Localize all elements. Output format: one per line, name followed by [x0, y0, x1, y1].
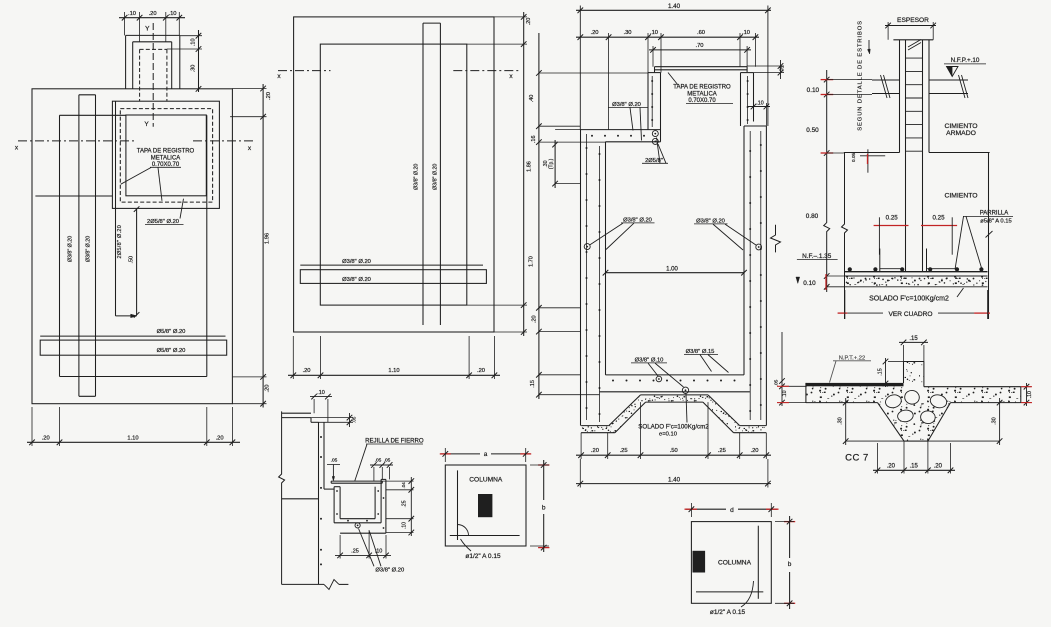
svg-text:.10: .10 [402, 522, 408, 529]
svg-text:.10: .10 [317, 390, 325, 396]
svg-text:Ø3/8" Ø.20: Ø3/8" Ø.20 [342, 259, 371, 265]
svg-text:.60: .60 [697, 30, 705, 36]
svg-text:.20: .20 [887, 463, 896, 469]
svg-text:TAPA DE REGISTRO: TAPA DE REGISTRO [673, 85, 731, 91]
svg-text:.25: .25 [351, 549, 359, 555]
svg-text:Ø3/8" Ø.20: Ø3/8" Ø.20 [433, 164, 439, 190]
svg-text:Ø3/8" Ø.20: Ø3/8" Ø.20 [67, 236, 73, 262]
svg-text:.20: .20 [526, 18, 532, 26]
svg-text:.05: .05 [384, 458, 391, 464]
svg-text:0.50: 0.50 [806, 127, 819, 134]
svg-text:.15: .15 [530, 380, 536, 388]
svg-text:SOLADO F'c=100Kg/cm2: SOLADO F'c=100Kg/cm2 [638, 424, 709, 431]
svg-text:.20: .20 [750, 448, 758, 454]
svg-text:Ø3/8" Ø.20: Ø3/8" Ø.20 [413, 164, 419, 190]
svg-text:.05: .05 [780, 66, 786, 73]
svg-text:1.10: 1.10 [388, 368, 399, 374]
svg-text:Ø3/8" Ø.20: Ø3/8" Ø.20 [342, 277, 371, 283]
svg-text:.10: .10 [191, 38, 197, 46]
svg-text:.20: .20 [477, 368, 485, 374]
svg-text:ARMADO: ARMADO [946, 130, 976, 137]
svg-text:.05: .05 [774, 379, 780, 386]
svg-text:ø5/8" A 0.15: ø5/8" A 0.15 [980, 219, 1011, 225]
svg-text:0.10: 0.10 [803, 280, 816, 287]
svg-text:.50: .50 [128, 256, 134, 264]
svg-text:TAPA DE REGISTRO: TAPA DE REGISTRO [137, 149, 195, 155]
svg-text:SOLADO F'c=100Kg/cm2: SOLADO F'c=100Kg/cm2 [869, 295, 949, 302]
svg-text:PARRILLA: PARRILLA [980, 211, 1009, 217]
svg-text:METALICA: METALICA [151, 155, 181, 161]
svg-text:.20: .20 [42, 435, 50, 441]
svg-text:Ø3/8" Ø.20: Ø3/8" Ø.20 [86, 236, 92, 262]
svg-text:.70: .70 [695, 43, 703, 49]
svg-text:.05: .05 [375, 458, 382, 464]
svg-text:ø1/2" A 0.15: ø1/2" A 0.15 [465, 553, 501, 560]
svg-text:Ø5/8" Ø.20: Ø5/8" Ø.20 [157, 329, 186, 335]
svg-text:Ø3/8" Ø.20: Ø3/8" Ø.20 [375, 568, 404, 574]
svg-text:.05: .05 [352, 416, 357, 423]
svg-text:Y: Y [145, 26, 150, 33]
svg-text:COLUMNA: COLUMNA [718, 559, 752, 566]
svg-text:.25: .25 [620, 448, 628, 454]
svg-text:1.40: 1.40 [668, 476, 681, 483]
svg-text:CIMIENTO: CIMIENTO [944, 192, 977, 199]
svg-text:.10: .10 [756, 100, 763, 106]
svg-text:.15: .15 [878, 368, 884, 375]
svg-text:0.80: 0.80 [806, 213, 819, 220]
svg-text:.20: .20 [302, 368, 310, 374]
svg-text:ESPESOR: ESPESOR [897, 17, 929, 24]
svg-text:.30: .30 [992, 417, 998, 424]
svg-text:1.86: 1.86 [527, 161, 533, 172]
svg-text:.20: .20 [266, 92, 272, 100]
svg-text:.15: .15 [910, 463, 919, 469]
svg-text:N.F.–.1.35: N.F.–.1.35 [802, 253, 832, 260]
svg-text:.15: .15 [909, 336, 918, 342]
svg-text:.10: .10 [650, 30, 658, 36]
svg-text:0.25: 0.25 [932, 214, 945, 221]
svg-text:.20: .20 [531, 315, 537, 323]
svg-text:.10: .10 [742, 30, 750, 36]
svg-text:.25: .25 [402, 500, 408, 507]
svg-text:.20: .20 [590, 30, 598, 36]
svg-text:.10: .10 [1027, 391, 1033, 398]
svg-text:0.10: 0.10 [807, 87, 820, 94]
svg-text:b: b [542, 505, 546, 512]
svg-text:.20: .20 [264, 384, 270, 392]
svg-text:a: a [484, 451, 488, 458]
svg-text:.16: .16 [531, 135, 537, 143]
svg-text:2Ø5/8" Ø.20: 2Ø5/8" Ø.20 [117, 225, 123, 259]
svg-text:.04: .04 [401, 482, 406, 489]
svg-text:N.F.P.+.10: N.F.P.+.10 [951, 57, 980, 64]
svg-text:.10: .10 [168, 11, 176, 17]
svg-text:SEGUN DETALLE DE ESTRIBOS: SEGUN DETALLE DE ESTRIBOS [858, 20, 864, 131]
svg-text:.30: .30 [623, 30, 631, 36]
svg-text:1.00: 1.00 [666, 266, 678, 272]
svg-text:d: d [730, 507, 734, 514]
svg-text:.20: .20 [934, 463, 943, 469]
svg-text:.30: .30 [191, 65, 197, 73]
svg-text:.20: .20 [591, 448, 599, 454]
svg-text:CC 7: CC 7 [845, 452, 869, 463]
svg-text:CIMIENTO: CIMIENTO [944, 123, 977, 130]
svg-text:.40: .40 [529, 95, 535, 103]
svg-text:VER CUADRO: VER CUADRO [889, 311, 933, 318]
svg-text:.10: .10 [128, 11, 136, 17]
svg-text:.50: .50 [670, 448, 678, 454]
svg-text:REJILLA DE FIERRO: REJILLA DE FIERRO [365, 438, 424, 445]
svg-text:0.05: 0.05 [851, 153, 857, 163]
svg-text:Ø5/8" Ø.20: Ø5/8" Ø.20 [157, 348, 186, 354]
svg-text:METALICA: METALICA [687, 91, 717, 97]
svg-text:.05: .05 [331, 458, 338, 464]
svg-text:ø1/2" A 0.15: ø1/2" A 0.15 [710, 609, 746, 616]
svg-text:.20: .20 [149, 11, 157, 17]
svg-text:.10: .10 [782, 390, 788, 397]
svg-text:.30: .30 [838, 417, 844, 424]
svg-text:b: b [788, 561, 792, 568]
svg-text:1.10: 1.10 [127, 435, 138, 441]
svg-text:.20: .20 [216, 435, 224, 441]
svg-text:1.40: 1.40 [668, 3, 681, 10]
svg-text:COLUMNA: COLUMNA [469, 476, 503, 483]
svg-text:.25: .25 [718, 448, 726, 454]
svg-text:0.25: 0.25 [886, 214, 899, 221]
svg-text:Y: Y [144, 121, 149, 128]
svg-text:(Tp.): (Tp.) [549, 158, 555, 169]
svg-text:1.70: 1.70 [528, 256, 534, 267]
svg-text:e=0.10: e=0.10 [659, 432, 677, 438]
svg-text:1.96: 1.96 [264, 233, 270, 244]
